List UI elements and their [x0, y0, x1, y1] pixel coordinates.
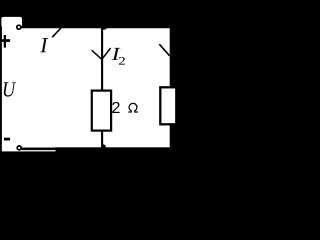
arrow barb: current into right branch — [159, 44, 169, 56]
wire: top horizontal — [17, 26, 170, 28]
figure white background: top-left tab — [1, 17, 22, 28]
resistor right branch — [160, 87, 176, 124]
resistor R (2 ohm) middle branch — [92, 91, 111, 131]
junction dot: bottom node — [101, 144, 106, 149]
figure white background: bottom-left strip — [2, 145, 56, 151]
terminal circle: + (top left) — [17, 25, 21, 29]
label: + polarity — [1, 35, 10, 48]
svg-text:I: I — [39, 33, 48, 57]
svg-text:2: 2 — [118, 54, 125, 67]
terminal circle: - (bottom left) — [17, 146, 21, 150]
figure white background: main area — [2, 26, 170, 147]
arrow barb: current I on top wire — [52, 27, 61, 37]
label: - polarity — [4, 138, 10, 141]
junction dot: top node — [100, 25, 107, 30]
arrowhead: I2 current direction (open V) — [92, 48, 111, 59]
svg-text:2: 2 — [111, 100, 120, 117]
wire: middle branch upper segment — [101, 26, 103, 91]
wire: bottom horizontal — [21, 147, 170, 150]
svg-text:U: U — [2, 78, 17, 102]
wire: middle branch lower segment — [101, 131, 103, 148]
